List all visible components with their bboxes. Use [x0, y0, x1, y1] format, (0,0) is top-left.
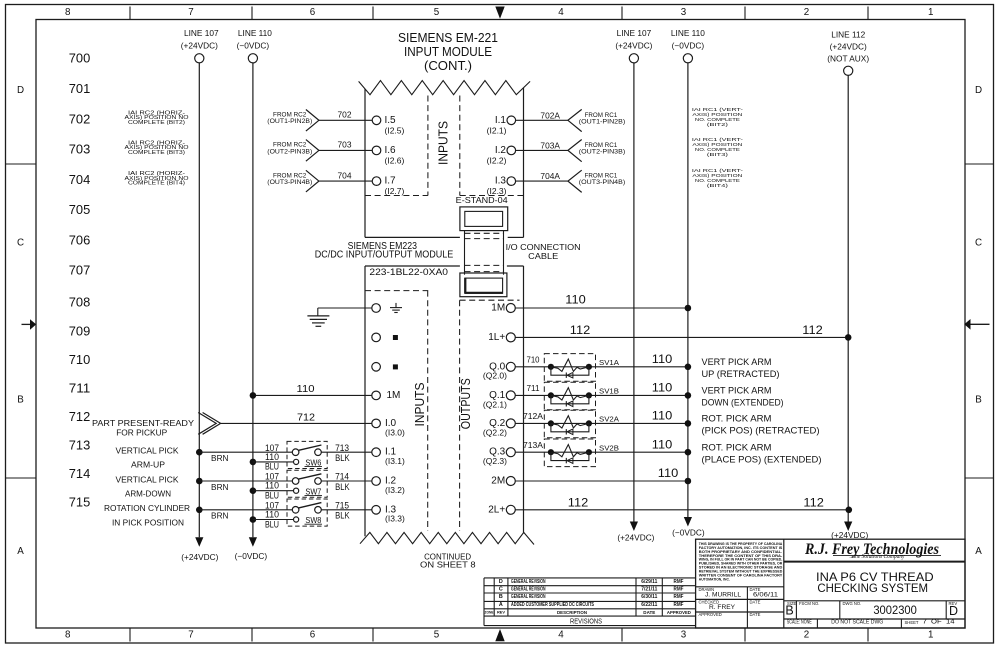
- svg-text:110: 110: [652, 437, 673, 451]
- svg-text:6/06/11: 6/06/11: [753, 591, 779, 598]
- svg-text:(−0VDC): (−0VDC): [235, 551, 268, 561]
- svg-text:704: 704: [338, 171, 353, 180]
- svg-text:LINE 110: LINE 110: [671, 28, 705, 38]
- svg-text:FROM RC2: FROM RC2: [273, 113, 307, 119]
- svg-text:C: C: [17, 238, 24, 249]
- svg-text:703: 703: [338, 141, 353, 150]
- svg-text:713: 713: [69, 437, 91, 452]
- svg-text:FROM RC1: FROM RC1: [585, 113, 618, 119]
- svg-text:E-STAND-04: E-STAND-04: [456, 196, 508, 205]
- svg-text:INPUTS: INPUTS: [437, 121, 451, 165]
- svg-text:705: 705: [69, 202, 91, 217]
- svg-text:3: 3: [681, 630, 687, 641]
- svg-text:2L+: 2L+: [488, 504, 505, 515]
- svg-text:DOWN (EXTENDED): DOWN (EXTENDED): [702, 398, 784, 409]
- svg-text:COMPLETE (BIT3): COMPLETE (BIT3): [128, 150, 185, 156]
- svg-text:(I3.2): (I3.2): [385, 485, 405, 495]
- svg-text:714: 714: [69, 466, 91, 481]
- svg-text:4: 4: [558, 7, 564, 18]
- svg-text:COMPLETE (BIT4): COMPLETE (BIT4): [128, 181, 185, 187]
- svg-text:703: 703: [69, 142, 91, 157]
- svg-text:DWG NO.: DWG NO.: [843, 601, 862, 606]
- svg-text:(I3.0): (I3.0): [385, 427, 405, 437]
- svg-text:715: 715: [335, 501, 349, 511]
- svg-text:ADDED CUSTOMER SUPPLIED DC CIR: ADDED CUSTOMER SUPPLIED DC CIRCUITS: [511, 602, 595, 608]
- svg-text:712A: 712A: [523, 412, 544, 421]
- svg-text:(BIT4): (BIT4): [707, 183, 729, 188]
- svg-text:APPROVED: APPROVED: [699, 612, 722, 617]
- svg-text:(−0VDC): (−0VDC): [672, 527, 705, 537]
- svg-text:DO NOT SCALE DWG: DO NOT SCALE DWG: [831, 620, 883, 626]
- svg-text:BLK: BLK: [335, 453, 350, 463]
- svg-text:RMF: RMF: [674, 594, 684, 600]
- svg-text:I.6: I.6: [385, 145, 397, 156]
- svg-text:ARM-UP: ARM-UP: [131, 460, 165, 470]
- svg-text:715: 715: [69, 494, 91, 509]
- svg-text:112: 112: [802, 323, 823, 337]
- svg-text:ON SHEET 8: ON SHEET 8: [420, 560, 476, 570]
- svg-text:UP (RETRACTED): UP (RETRACTED): [702, 369, 780, 380]
- svg-text:SIEMENS EM-221: SIEMENS EM-221: [398, 30, 498, 45]
- svg-text:B: B: [975, 395, 982, 406]
- svg-text:APPROVED: APPROVED: [667, 610, 692, 615]
- svg-text:709: 709: [69, 323, 91, 338]
- svg-text:D: D: [975, 85, 982, 96]
- svg-text:(+24VDC): (+24VDC): [181, 40, 218, 50]
- svg-text:8: 8: [65, 7, 71, 18]
- svg-text:SV2B: SV2B: [599, 444, 619, 453]
- svg-text:SHEET: SHEET: [905, 620, 919, 625]
- svg-text:GENERAL REVISION: GENERAL REVISION: [511, 579, 546, 585]
- svg-text:VERT PICK ARM: VERT PICK ARM: [702, 386, 772, 397]
- svg-text:711: 711: [527, 384, 541, 393]
- svg-text:D: D: [17, 85, 24, 96]
- svg-text:SV1B: SV1B: [599, 387, 619, 396]
- svg-text:C: C: [499, 586, 503, 592]
- svg-text:BLU: BLU: [265, 462, 279, 472]
- svg-text:AUTOMATION, INC.: AUTOMATION, INC.: [699, 577, 730, 581]
- svg-text:(Q2.0): (Q2.0): [483, 371, 507, 381]
- svg-text:I.7: I.7: [385, 176, 397, 187]
- svg-text:7: 7: [188, 630, 193, 641]
- svg-text:6/22/11: 6/22/11: [641, 602, 657, 608]
- svg-text:6: 6: [310, 7, 316, 18]
- svg-text:ZONE: ZONE: [485, 610, 495, 614]
- svg-text:2: 2: [804, 7, 809, 18]
- svg-text:(CONT.): (CONT.): [424, 58, 472, 73]
- svg-text:6/30/11: 6/30/11: [641, 594, 657, 600]
- svg-text:INPUT MODULE: INPUT MODULE: [404, 44, 492, 59]
- svg-text:3002300: 3002300: [873, 605, 917, 617]
- svg-text:BRN: BRN: [211, 454, 229, 463]
- svg-text:BRN: BRN: [211, 483, 229, 492]
- svg-text:VERT PICK ARM: VERT PICK ARM: [702, 357, 772, 368]
- svg-text:FROM RC2: FROM RC2: [273, 173, 307, 179]
- svg-text:700: 700: [69, 51, 91, 66]
- svg-text:I.5: I.5: [385, 115, 397, 126]
- svg-text:1L+: 1L+: [488, 332, 505, 343]
- svg-text:710: 710: [69, 352, 91, 367]
- svg-text:FROM RC1: FROM RC1: [585, 174, 618, 180]
- svg-text:(I2.5): (I2.5): [385, 125, 405, 135]
- svg-text:110: 110: [265, 452, 279, 462]
- svg-text:A: A: [499, 602, 503, 608]
- svg-text:BRN: BRN: [211, 512, 229, 521]
- svg-text:223-1BL22-0XA0: 223-1BL22-0XA0: [369, 267, 448, 278]
- svg-text:7/21/11: 7/21/11: [641, 586, 657, 592]
- svg-text:GENERAL REVISION: GENERAL REVISION: [511, 586, 546, 592]
- svg-text:J. MURRILL: J. MURRILL: [705, 591, 742, 598]
- svg-text:706: 706: [69, 232, 91, 247]
- svg-text:708: 708: [69, 295, 91, 310]
- svg-text:(+24VDC): (+24VDC): [615, 40, 652, 50]
- svg-text:SV1A: SV1A: [599, 358, 619, 367]
- svg-text:711: 711: [69, 380, 91, 395]
- svg-text:DATE: DATE: [750, 599, 761, 604]
- svg-text:...the Solutions Company: ...the Solutions Company: [850, 554, 905, 560]
- svg-text:6/29/11: 6/29/11: [641, 579, 657, 585]
- svg-text:LINE 110: LINE 110: [238, 28, 272, 38]
- svg-text:707: 707: [69, 263, 91, 278]
- svg-text:702: 702: [338, 111, 353, 120]
- svg-text:FOR PICKUP: FOR PICKUP: [116, 427, 167, 437]
- svg-text:DATE: DATE: [643, 610, 655, 615]
- svg-text:(−0VDC): (−0VDC): [672, 40, 705, 50]
- svg-text:112: 112: [570, 323, 591, 337]
- svg-text:(I3.1): (I3.1): [385, 456, 405, 466]
- svg-text:710: 710: [527, 356, 541, 365]
- svg-text:1M: 1M: [387, 390, 401, 401]
- svg-text:CHECKING SYSTEM: CHECKING SYSTEM: [817, 581, 928, 595]
- svg-text:REVISIONS: REVISIONS: [570, 616, 602, 625]
- svg-text:(PICK POS) (RETRACTED): (PICK POS) (RETRACTED): [702, 426, 820, 437]
- svg-text:I.3: I.3: [495, 176, 507, 187]
- svg-text:6: 6: [310, 630, 316, 641]
- svg-text:D: D: [949, 604, 958, 618]
- svg-text:(PLACE POS) (EXTENDED): (PLACE POS) (EXTENDED): [702, 454, 822, 465]
- svg-text:110: 110: [297, 384, 315, 395]
- svg-text:D: D: [499, 579, 503, 585]
- svg-text:4: 4: [558, 630, 564, 641]
- svg-text:(I2.3): (I2.3): [487, 186, 507, 196]
- svg-text:703A: 703A: [540, 141, 560, 150]
- svg-text:ROT. PICK ARM: ROT. PICK ARM: [702, 442, 772, 453]
- svg-text:ARM-DOWN: ARM-DOWN: [125, 489, 171, 499]
- svg-text:(−0VDC): (−0VDC): [237, 40, 270, 50]
- svg-text:(NOT AUX): (NOT AUX): [827, 54, 869, 64]
- svg-text:1: 1: [928, 630, 933, 641]
- svg-text:712: 712: [69, 409, 91, 424]
- svg-text:704: 704: [69, 172, 91, 187]
- svg-text:B: B: [785, 604, 793, 618]
- svg-text:FROM RC2: FROM RC2: [273, 143, 307, 149]
- svg-text:RMF: RMF: [674, 602, 684, 608]
- svg-text:(OUT3-PIN4B): (OUT3-PIN4B): [267, 180, 312, 186]
- svg-text:BLU: BLU: [265, 519, 279, 529]
- svg-text:110: 110: [265, 509, 279, 519]
- svg-text:(OUT2-PIN3B): (OUT2-PIN3B): [579, 149, 625, 155]
- svg-text:702: 702: [69, 111, 91, 126]
- svg-text:(Q2.3): (Q2.3): [483, 456, 507, 466]
- svg-text:(+24VDC): (+24VDC): [181, 552, 218, 562]
- svg-text:3: 3: [681, 7, 687, 18]
- svg-text:DATE: DATE: [750, 612, 761, 617]
- svg-text:(Q2.1): (Q2.1): [483, 399, 507, 409]
- svg-text:CABLE: CABLE: [528, 252, 559, 261]
- svg-text:(I2.1): (I2.1): [487, 125, 507, 135]
- svg-text:2M: 2M: [491, 476, 505, 487]
- svg-text:(BIT2): (BIT2): [707, 122, 729, 127]
- svg-text:110: 110: [652, 381, 673, 395]
- svg-text:701: 701: [69, 81, 91, 96]
- svg-text:712: 712: [297, 412, 315, 423]
- svg-text:110: 110: [652, 352, 673, 366]
- svg-text:SCALE: NONE: SCALE: NONE: [787, 620, 812, 626]
- svg-text:110: 110: [652, 409, 673, 423]
- svg-text:ROTATION CYLINDER: ROTATION CYLINDER: [104, 503, 190, 513]
- svg-text:8: 8: [65, 630, 71, 641]
- svg-text:1M: 1M: [491, 303, 505, 314]
- svg-text:(Q2.2): (Q2.2): [483, 427, 507, 437]
- svg-text:LINE 107: LINE 107: [617, 28, 652, 38]
- svg-text:DESCRIPTION: DESCRIPTION: [557, 610, 588, 615]
- svg-text:COMPLETE (BIT2): COMPLETE (BIT2): [128, 120, 185, 126]
- svg-text:(OUT2-PIN3B): (OUT2-PIN3B): [267, 149, 312, 155]
- svg-text:I.2: I.2: [495, 145, 507, 156]
- svg-text:702A: 702A: [540, 111, 560, 120]
- svg-text:OUTPUTS: OUTPUTS: [459, 378, 473, 429]
- svg-text:IN PICK POSITION: IN PICK POSITION: [112, 517, 184, 527]
- svg-text:110: 110: [658, 466, 679, 480]
- svg-text:704A: 704A: [540, 172, 560, 181]
- svg-text:B: B: [17, 395, 24, 406]
- svg-text:R. FREY: R. FREY: [709, 604, 735, 611]
- svg-text:112: 112: [568, 496, 589, 510]
- svg-text:BLK: BLK: [335, 511, 350, 521]
- svg-text:VERTICAL PICK: VERTICAL PICK: [116, 446, 179, 456]
- svg-text:7 OF 14: 7 OF 14: [923, 620, 956, 626]
- svg-text:(I2.7): (I2.7): [385, 186, 405, 196]
- svg-text:(I2.6): (I2.6): [385, 155, 405, 165]
- svg-text:5: 5: [434, 630, 440, 641]
- svg-text:GENERAL REVISION: GENERAL REVISION: [511, 594, 546, 600]
- svg-text:2: 2: [804, 630, 809, 641]
- svg-text:ROT. PICK ARM: ROT. PICK ARM: [702, 414, 772, 425]
- svg-text:A: A: [17, 546, 24, 557]
- svg-text:(I3.3): (I3.3): [385, 514, 405, 524]
- svg-text:(OUT3-PIN4B): (OUT3-PIN4B): [579, 180, 625, 186]
- svg-text:7: 7: [188, 7, 193, 18]
- svg-text:REV: REV: [497, 610, 505, 614]
- svg-text:(+24VDC): (+24VDC): [831, 530, 868, 540]
- svg-text:SV2A: SV2A: [599, 415, 619, 424]
- svg-text:(+24VDC): (+24VDC): [617, 533, 654, 543]
- svg-text:110: 110: [265, 481, 279, 491]
- svg-text:(+24VDC): (+24VDC): [830, 42, 867, 52]
- svg-text:(OUT1-PIN2B): (OUT1-PIN2B): [267, 119, 312, 125]
- svg-text:BLK: BLK: [335, 482, 350, 492]
- svg-text:PART PRESENT-READY: PART PRESENT-READY: [92, 418, 194, 428]
- svg-text:C: C: [975, 238, 982, 249]
- svg-text:RMF: RMF: [674, 579, 684, 585]
- svg-text:LINE 112: LINE 112: [831, 30, 865, 40]
- svg-text:714: 714: [335, 472, 349, 482]
- svg-text:I/O CONNECTION: I/O CONNECTION: [506, 243, 581, 252]
- svg-text:(I2.2): (I2.2): [487, 155, 507, 165]
- svg-text:BLU: BLU: [265, 491, 279, 501]
- svg-text:713: 713: [335, 443, 349, 453]
- svg-text:110: 110: [565, 293, 586, 307]
- svg-text:INPUTS: INPUTS: [413, 383, 427, 427]
- svg-text:FSCM NO.: FSCM NO.: [799, 601, 819, 606]
- svg-text:DC/DC INPUT/OUTPUT MODULE: DC/DC INPUT/OUTPUT MODULE: [315, 250, 454, 261]
- svg-text:FROM RC1: FROM RC1: [585, 143, 618, 149]
- svg-text:RMF: RMF: [674, 586, 684, 592]
- svg-text:LINE 107: LINE 107: [184, 28, 219, 38]
- svg-text:B: B: [499, 594, 503, 600]
- svg-text:112: 112: [803, 496, 824, 510]
- svg-text:(OUT1-PIN2B): (OUT1-PIN2B): [579, 119, 625, 125]
- svg-text:713A: 713A: [523, 441, 544, 450]
- svg-text:A: A: [975, 546, 982, 557]
- svg-text:I.1: I.1: [495, 115, 507, 126]
- svg-text:VERTICAL PICK: VERTICAL PICK: [116, 474, 179, 484]
- svg-text:1: 1: [928, 7, 933, 18]
- svg-text:5: 5: [434, 7, 440, 18]
- svg-text:(BIT3): (BIT3): [707, 152, 729, 157]
